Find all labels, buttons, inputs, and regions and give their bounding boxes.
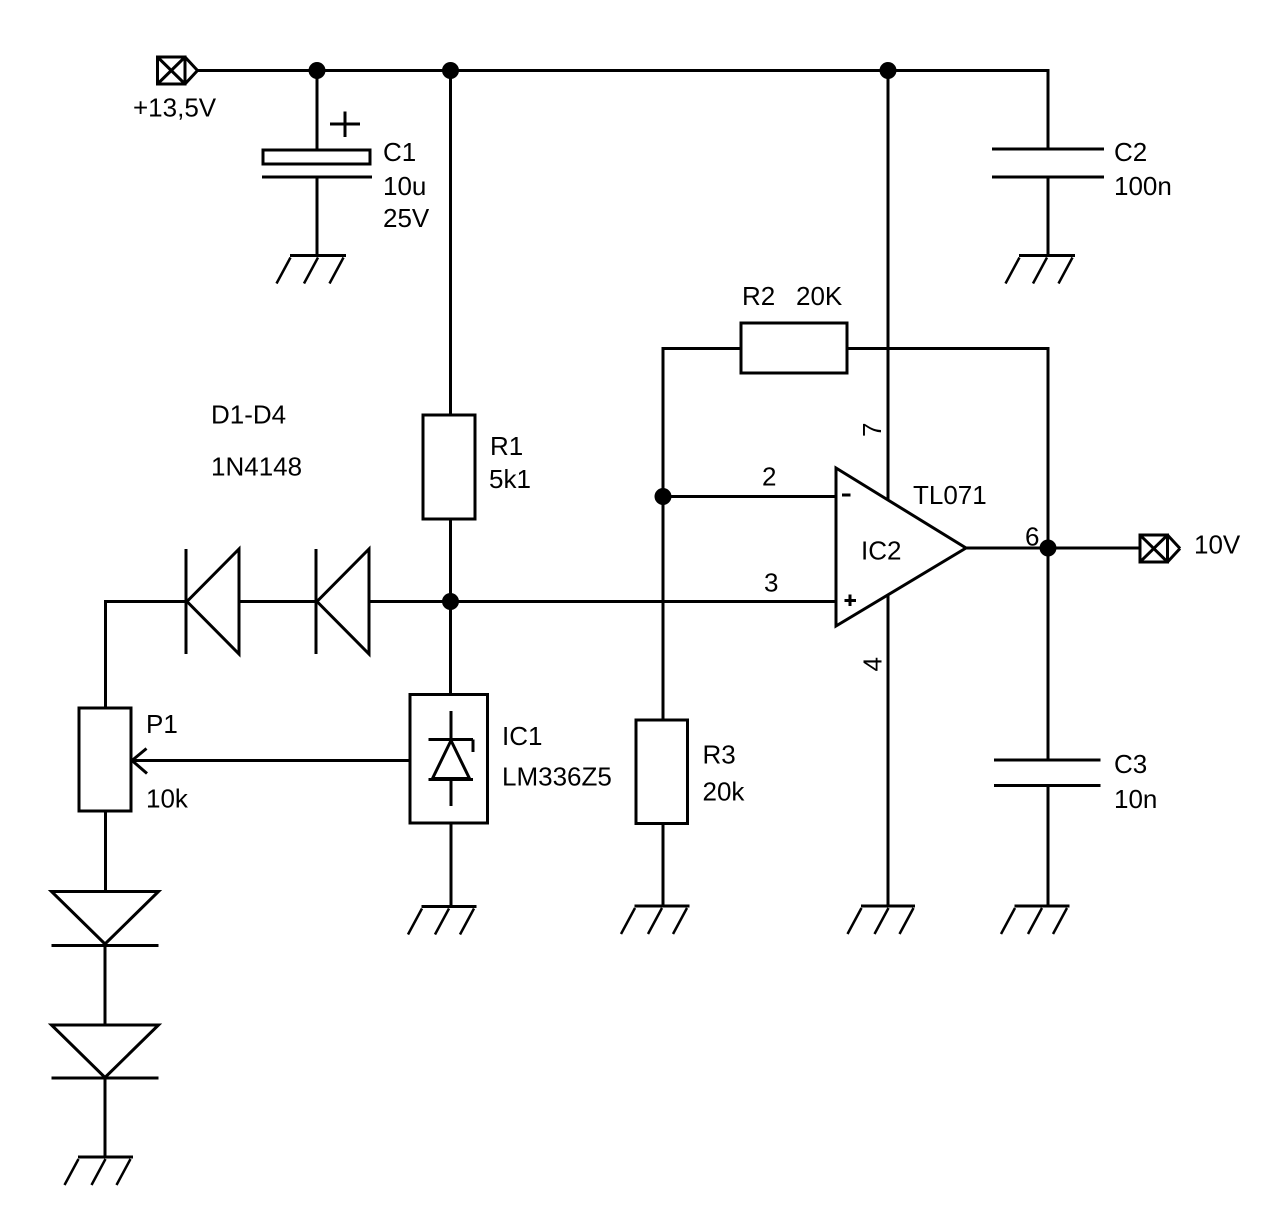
wire R3 top [662, 497, 665, 721]
capacitor C2 [992, 149, 1104, 177]
wire pin 7 [887, 71, 890, 501]
svg-text:3: 3 [764, 568, 778, 598]
wire C1 bottom [316, 177, 319, 256]
svg-text:LM336Z5: LM336Z5 [502, 762, 612, 792]
label C1 value [383, 137, 430, 233]
ground under R3 [621, 906, 690, 934]
wire output [966, 547, 1140, 550]
junction dot E (pin2 node) [655, 488, 672, 505]
potentiometer P1 [79, 708, 410, 811]
ground under C1 [277, 256, 347, 284]
svg-text:5k1: 5k1 [489, 464, 531, 494]
svg-text:25V: 25V [383, 203, 430, 233]
connector J1 input [158, 57, 198, 84]
wire C3 top [1047, 548, 1050, 760]
wire R2 left [663, 349, 741, 497]
diode D4 [52, 1025, 159, 1078]
svg-text:20K: 20K [796, 281, 843, 311]
wire main node rail (pin 3) [106, 602, 837, 709]
svg-text:10k: 10k [146, 784, 189, 814]
ground under D4 [65, 1157, 134, 1185]
svg-text:10n: 10n [1114, 784, 1157, 814]
junction dot D (main node) [442, 593, 459, 610]
op-amp IC2 [836, 468, 966, 626]
wire IC1 bottom [450, 823, 453, 907]
svg-text:10V: 10V [1194, 530, 1241, 560]
capacitor C3 [994, 760, 1101, 786]
resistor R2 [741, 323, 847, 373]
junction dot B (R1 tap) [442, 62, 459, 79]
svg-text:4: 4 [858, 657, 888, 671]
wire C2 bottom [1047, 177, 1050, 256]
ground under pin 4 [848, 906, 916, 934]
svg-text:D1-D4: D1-D4 [211, 400, 286, 430]
label R2 value [742, 281, 843, 311]
wire R2 right [847, 349, 1048, 549]
resistor R3 [636, 720, 688, 824]
svg-text:R3: R3 [703, 740, 736, 770]
svg-text:TL071: TL071 [913, 480, 987, 510]
svg-text:IC1: IC1 [502, 721, 542, 751]
IC1 LM336Z5 [410, 695, 488, 824]
svg-text:2: 2 [762, 462, 776, 492]
svg-text:R2: R2 [742, 281, 775, 311]
ground under C3 [1001, 906, 1070, 934]
svg-text:C2: C2 [1114, 137, 1147, 167]
label R3 value [703, 740, 746, 807]
wire R1 bottom [449, 519, 452, 602]
label R1 value [489, 431, 531, 494]
diode D2 [316, 549, 369, 654]
svg-text:1N4148: 1N4148 [211, 452, 302, 482]
wire pin 4 [887, 595, 890, 906]
svg-text:20k: 20k [703, 777, 746, 807]
ground under IC1 [408, 907, 477, 935]
svg-text:C3: C3 [1114, 749, 1147, 779]
svg-text:R1: R1 [490, 431, 523, 461]
wire pin 2 [663, 495, 836, 498]
wire C1 top [316, 71, 319, 151]
connector J2 output [1140, 535, 1180, 562]
capacitor C1 [262, 112, 372, 178]
junction dot A (C1 tap) [309, 62, 326, 79]
svg-text:P1: P1 [146, 709, 178, 739]
svg-text:10u: 10u [383, 171, 426, 201]
wire P1 bottom [104, 811, 107, 892]
wire C3 bottom [1047, 786, 1050, 907]
wire IC1 top [449, 602, 452, 695]
diode D3 [52, 892, 159, 946]
wire top rail [198, 71, 1049, 150]
junction dot F (output node) [1040, 540, 1057, 557]
label D1-D4 1N4148 [211, 400, 302, 482]
svg-text:C1: C1 [383, 137, 416, 167]
label P1 value [146, 709, 189, 814]
svg-text:100n: 100n [1114, 171, 1172, 201]
ground under C2 [1006, 256, 1076, 284]
svg-text:7: 7 [857, 423, 887, 437]
label IC1 value [502, 721, 612, 792]
svg-text:6: 6 [1025, 522, 1039, 552]
junction dot C (pin7 tap) [880, 62, 897, 79]
wire R1 top [449, 71, 452, 416]
resistor R1 [423, 415, 475, 519]
svg-text:IC2: IC2 [861, 536, 901, 566]
wire R3 bottom [662, 824, 665, 907]
label C3 value [1114, 749, 1157, 814]
svg-text:+13,5V: +13,5V [133, 93, 217, 123]
wire D4 bottom [104, 1078, 107, 1157]
label C2 value [1114, 137, 1172, 201]
wire D3-D4 [104, 946, 107, 1026]
diode D1 [186, 549, 239, 654]
